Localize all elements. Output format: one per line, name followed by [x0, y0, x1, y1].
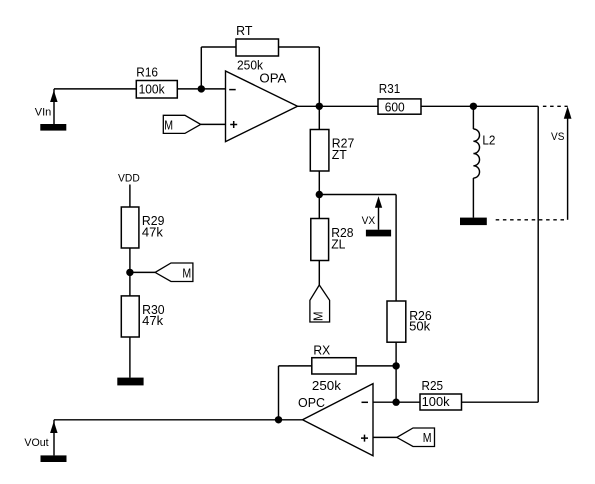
- svg-text:M: M: [182, 267, 191, 281]
- wire VDD to R29: [129, 185, 131, 208]
- junction node R25/OPC minus: [392, 399, 399, 406]
- svg-text:RX: RX: [313, 344, 330, 358]
- junction node R29/R30: [126, 269, 133, 276]
- wire RT to output vertical: [279, 46, 320, 48]
- wire RX left horizontal: [279, 365, 312, 367]
- wire OPA output to R31: [298, 105, 379, 107]
- wire R31 to L2 node: [421, 105, 538, 107]
- wire right side vertical down to R25: [537, 106, 539, 402]
- wire node to R28: [318, 195, 320, 219]
- svg-text:VIn: VIn: [35, 107, 52, 119]
- node VS arrow: [551, 106, 572, 220]
- wire OPA output down to R27: [318, 106, 320, 129]
- resistor R25: [420, 379, 462, 410]
- junction node OPA output: [316, 103, 323, 110]
- svg-text:R31: R31: [379, 82, 400, 96]
- wire RX left vertical: [278, 366, 280, 420]
- svg-text:VDD: VDD: [118, 172, 140, 184]
- svg-text:47k: 47k: [142, 314, 164, 328]
- wire R29 to R30: [129, 248, 131, 296]
- svg-text:OPC: OPC: [298, 396, 325, 410]
- wire feedback right vertical: [318, 47, 320, 106]
- ground VIn bar: [40, 124, 66, 131]
- inductor L2: [473, 106, 495, 217]
- wire VOut vertical drop: [53, 420, 55, 456]
- junction node R27/R28: [316, 191, 323, 198]
- wire R26 branch vertical: [395, 195, 397, 302]
- wire dotted bottom right: [496, 219, 568, 221]
- wire VIn vertical drop: [53, 89, 55, 124]
- svg-text:VS: VS: [551, 131, 564, 143]
- resistor R27: [310, 130, 354, 172]
- wire R26 down: [395, 342, 397, 402]
- wire R28 to M port: [318, 261, 320, 286]
- svg-text:M: M: [164, 118, 173, 132]
- svg-text:L2: L2: [482, 134, 495, 148]
- wire VIn horizontal to R16: [54, 88, 136, 90]
- wire feedback top left horizontal: [201, 46, 236, 48]
- wire R25 to right vertical: [462, 401, 539, 403]
- svg-text:250k: 250k: [312, 379, 342, 393]
- svg-text:100k: 100k: [139, 82, 166, 96]
- ground VOut bar: [41, 455, 67, 462]
- wire feedback left vertical: [200, 47, 202, 89]
- svg-text:M: M: [423, 431, 432, 445]
- svg-text:VOut: VOut: [24, 437, 48, 449]
- svg-text:50k: 50k: [409, 319, 431, 333]
- svg-text:VX: VX: [362, 215, 376, 227]
- svg-text:R25: R25: [422, 379, 444, 393]
- junction node OPC output / feedback: [275, 416, 282, 423]
- svg-text:R16: R16: [136, 65, 158, 79]
- wire node to M port: [130, 271, 155, 273]
- svg-text:ZT: ZT: [332, 148, 347, 162]
- resistor R30: [121, 296, 164, 337]
- ground R30 bar: [117, 378, 143, 386]
- svg-text:ZL: ZL: [331, 238, 345, 252]
- wire node to R26 branch horizontal: [319, 194, 396, 196]
- junction node at OPA inverting input: [198, 85, 205, 92]
- port M to OPA non-inverting input: [163, 115, 200, 133]
- resistor R31: [378, 82, 421, 114]
- op-amp OPC: [298, 384, 373, 456]
- resistor RT: [236, 24, 279, 73]
- resistor R28: [311, 219, 354, 261]
- resistor RX: [312, 344, 356, 393]
- op-amp OPA: [226, 71, 298, 142]
- svg-text:47k: 47k: [142, 225, 164, 239]
- svg-text:600: 600: [385, 100, 405, 114]
- node VOut arrow: [50, 421, 58, 433]
- port M to OPC non-inverting input: [397, 428, 435, 447]
- svg-text:100k: 100k: [422, 395, 451, 409]
- wire R30 to ground: [129, 337, 131, 378]
- wire R16 to OPA inverting input: [177, 88, 225, 90]
- resistor R26: [387, 301, 432, 342]
- wire OPC plus to M port: [373, 436, 397, 438]
- wire OPC output to VOut: [54, 419, 303, 421]
- junction node at L2 top: [470, 103, 477, 110]
- ground L2 bar: [460, 218, 487, 226]
- svg-text:250k: 250k: [237, 59, 264, 73]
- wire OPC minus to R25: [373, 401, 420, 403]
- ground VX bar: [366, 230, 391, 237]
- port M at R29/R30 divider: [155, 263, 193, 282]
- svg-text:RT: RT: [236, 24, 253, 38]
- node VIn arrow: [50, 90, 58, 102]
- junction node RX/R26: [392, 362, 399, 369]
- svg-text:OPA: OPA: [259, 72, 287, 86]
- wire R27 to node: [318, 171, 320, 195]
- resistor R29: [121, 207, 164, 248]
- svg-text:M: M: [312, 312, 326, 322]
- wire RX to node: [356, 365, 396, 367]
- port M below R28: [310, 285, 330, 322]
- node VX probe: [362, 196, 383, 229]
- wire dotted top right: [543, 105, 568, 107]
- wire M port to OPA plus: [201, 123, 226, 125]
- resistor R16: [136, 65, 177, 98]
